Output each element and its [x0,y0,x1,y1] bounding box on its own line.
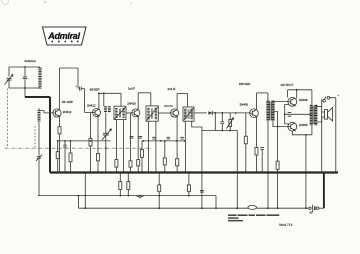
wire C5 legs [64,141,66,173]
T3 primary coil [184,109,186,120]
wire trimmer to loop bottom [24,79,26,97]
thick ground lead from loop [25,96,50,98]
wire bottom into output transformer [311,125,313,135]
wire C1B top [105,130,107,134]
resistor R18 [187,185,190,192]
driver transformer T4 secondary [271,101,274,121]
T2 primary coil [147,108,149,119]
wire top into output transformer [311,90,313,105]
resistor R1 [58,127,61,134]
transistor Q4 2nd IF [171,109,179,117]
oscillator tuning capacitor C1B plates [103,133,109,135]
svg-text:OUTPUT: OUTPUT [281,83,294,87]
svg-text:1st IF: 1st IF [128,86,135,90]
oscillator feedback wire down [103,93,105,106]
notes text line 2 [228,217,239,219]
bus drop leg B [84,173,86,209]
volume arrow [226,118,233,129]
resistor R2 [56,152,59,159]
wire R12 to bus [245,144,247,173]
T5 secondary bottom wire [316,117,322,122]
svg-text:2N410: 2N410 [127,102,136,106]
R18 legs [188,173,190,196]
volume control R11 [229,119,232,126]
filter leg 2 with capacitor C11 [221,113,225,131]
trimmer capacitor C2 plates [23,77,27,79]
notes text line 1 [228,214,279,216]
T3 tuning arrow [184,108,194,120]
Q3 collector wire up [137,93,139,109]
T2 tuning arrow [147,107,158,120]
electrolytic capacitor C15 [137,195,144,199]
wire return leg [201,131,203,209]
ganged tuning dash-dot link horizontal [5,147,152,149]
transistor Q6 output upper [288,97,297,106]
bypass capacitor C5 [63,145,66,147]
Q4 emitter leg [176,117,178,159]
Q2 emitter wire [97,116,99,153]
svg-text:MIXER: MIXER [90,87,101,91]
wire C13 leg [261,150,263,173]
resistor R3 [69,153,72,162]
wire into T2 [150,93,152,106]
speaker terminal wires [322,112,325,117]
volume top wire [229,113,231,120]
wire L3 to tuning cap [105,113,107,130]
resistor R15 [119,182,122,190]
capacitor C12 on leg [200,190,204,192]
detector return wire [202,130,237,132]
svg-text:Antenna: Antenna [24,59,36,63]
svg-text:Mod 714: Mod 714 [279,223,292,227]
wire bias leg [57,141,59,152]
antenna coil L1 [38,68,41,89]
capacitor C9 [167,137,171,139]
wire bias leg 2 [70,141,72,153]
filter leg 1 [214,113,216,131]
trimmer capacitor on L2 leg [36,155,42,162]
IF transformer T1 can [114,106,126,119]
resistor R14 [276,161,279,169]
Q1 emitter wire [59,117,61,127]
wire cap to mixer base [81,89,92,113]
capacitor C6 [130,136,134,138]
Q5 emitter leg [256,117,258,148]
T2 secondary coil [155,108,157,119]
capacitor C14 marks [288,112,292,116]
Q5 collector wire up [256,93,258,110]
T3 primary leg [184,121,186,141]
bypass capacitor C13 [260,148,264,150]
T2 core [152,108,153,119]
driver collector top wire [257,92,268,94]
mixer base bias leg [90,113,92,139]
resistor R7 [129,161,132,167]
resistor R19 [163,158,166,165]
T1 tuning arrow [115,107,126,119]
svg-text:2N412: 2N412 [63,110,72,114]
T4 primary bottom to bus [267,121,269,208]
jack return wire left [321,99,323,173]
wire R3 to bus [70,162,72,173]
T3 secondary bottom wire [192,121,202,130]
earphone jack J1 [323,100,326,103]
wire R2 to bus [57,159,59,173]
wire L2 top to RF base [39,108,53,113]
volume bottom wire [229,127,231,131]
driver base divider leg [245,113,247,136]
AVC line right segment [142,140,186,142]
transistor Q3 1st IF [132,109,140,117]
svg-text:2N408: 2N408 [299,98,308,102]
resistor R17 [158,185,161,192]
T4 mid tap [273,111,278,161]
wire R1 to bus [59,134,61,173]
IF transformer T2 can [146,106,158,121]
IF transformer T3 can [183,107,194,121]
antenna mid vertical wire [24,67,26,76]
scan speck [45,1,47,3]
transistor Q1 RF amp [53,109,61,117]
AVC bus [38,196,216,209]
driver transformer T4 primary [266,101,269,121]
T1 secondary coil [122,108,124,118]
on-off switch S1 [248,205,257,209]
wire R19 to bus [164,165,166,173]
capacitor C7 [138,136,142,138]
svg-text:DRIVER: DRIVER [239,82,251,86]
R15 legs [119,173,121,196]
T1 primary bottom leg [115,120,117,160]
capacitor C8 [152,137,156,139]
resistor R5 [97,153,100,161]
resistor R10 [176,159,179,166]
svg-text:2N408: 2N408 [299,123,308,127]
Q1 collector wire up [59,68,61,109]
Q4 collector wire up [176,94,178,110]
bus drop leg A [78,196,80,209]
wire R8 to bus [137,166,139,173]
wire C1B to bus [105,136,107,173]
wire R9 to bus [141,157,143,172]
svg-text:2nd IF: 2nd IF [168,87,176,91]
svg-text:RF AMP: RF AMP [62,100,73,104]
capacitor C10 [180,137,184,139]
wire battery to B+ [319,207,324,209]
wire into driver transformer [267,93,269,101]
svg-text:Admiral: Admiral [47,31,80,41]
wire R7 to bus [130,167,132,172]
svg-text:9V: 9V [310,211,313,215]
Admiral logo stars [52,41,79,43]
wire L2 bottom down [38,122,40,155]
T4 secondary bottom wire to lower base [273,121,288,127]
emitter resistor wire to transformer mid [285,113,311,115]
wire R10 to bus [176,166,178,173]
resistor R13 [255,147,258,155]
wire diode to driver base [212,112,249,114]
T2 primary bottom leg [148,121,150,172]
RF collector top wire [60,67,79,69]
base bias leg Q3 [130,113,132,161]
wire trimmer to AVC bus [38,159,40,196]
R16 legs [127,173,129,196]
oscillator coil L3 [104,106,107,113]
T1 secondary leg [123,120,125,173]
AVC line left segment [58,140,111,142]
wire R13 to bus [256,155,258,173]
thick ground vertical [49,97,51,173]
coupling capacitor C4 [79,87,81,91]
resistor R16 [127,182,130,190]
wire R6 to bus [115,167,117,172]
output top wire [288,89,312,91]
B+ leg from output stage [305,135,307,208]
IF1 collector top wire [138,92,151,94]
scan smudge top-left [2,0,9,5]
variable tuning capacitor C1A plates [7,78,12,80]
output transformer T5 primary [310,105,313,125]
svg-text:2N412: 2N412 [87,103,96,107]
R17 legs [158,173,160,209]
output bottom wire [292,131,312,135]
IF2 collector top wire [177,93,188,95]
wire top feed into T1 [120,93,122,106]
wire bias into upper base [287,90,289,98]
mixer collector top wire [99,92,121,94]
emitter join vertical [285,105,289,124]
RF secondary coil L2 [38,110,41,122]
Q2 collector wire up [98,93,100,109]
T5 core [313,106,314,125]
oscillator coil L3b [108,106,111,113]
wire into T3 [187,94,189,107]
wire R14 to bus [277,169,279,208]
main ground bus [50,171,338,173]
bias leg IF2 [164,141,166,158]
resistor R4 [89,139,92,146]
wire down to coupling cap [77,68,79,89]
T4 secondary top wire to upper base [273,101,288,102]
Q6 collector wire [296,90,298,99]
resistor R12 [244,136,247,144]
resistor R8 [137,160,140,166]
output transformer T5 secondary [314,105,317,125]
transistor Q7 output lower [288,122,297,131]
T2 secondary leg [155,121,157,172]
thick B+ drop [323,173,325,209]
AVC leg resistor vertical [141,141,143,150]
T3 secondary coil [191,109,193,120]
T1 primary coil [115,108,117,118]
resistor R9 [141,150,144,158]
wire R4 to bus [90,146,92,173]
wire cap to loop bottom [8,81,10,88]
Q3 emitter leg [137,117,139,160]
dashed link to coil trimmer [34,126,36,148]
antenna loop bottom wire [9,87,40,89]
notes text line 3 [228,220,243,222]
svg-text:2N410: 2N410 [164,104,173,108]
T1 core [119,109,120,118]
wire R5 to bus [97,161,99,173]
transistor Q2 mixer [93,109,101,117]
battery B1 terminals [309,207,311,209]
T5 secondary top wire [316,106,322,108]
antenna loop top wire [9,66,40,68]
T4 core [270,102,271,121]
ganged tuning dashed link vertical [7,89,9,148]
wire T1 to Q3 base [126,112,132,114]
T3 core [188,109,189,119]
battery bus [79,207,310,209]
detector output wire [194,112,207,114]
C1B arrow [102,129,112,140]
wire T2 to Q4 base [158,112,170,114]
jack return wire right [335,98,337,173]
transistor Q5 driver [250,109,259,118]
variable capacitor C1A arrow [5,75,14,85]
AGC leg [236,131,238,209]
Admiral logo trapezoid [43,27,87,45]
svg-text:2N406: 2N406 [240,103,249,107]
antenna loop left wire [8,67,10,77]
resistor R6 [115,160,118,168]
diode CR1 [208,111,212,115]
wire AVC to bus [185,141,187,173]
scan speck [131,3,133,5]
speaker SP1 [325,110,328,120]
